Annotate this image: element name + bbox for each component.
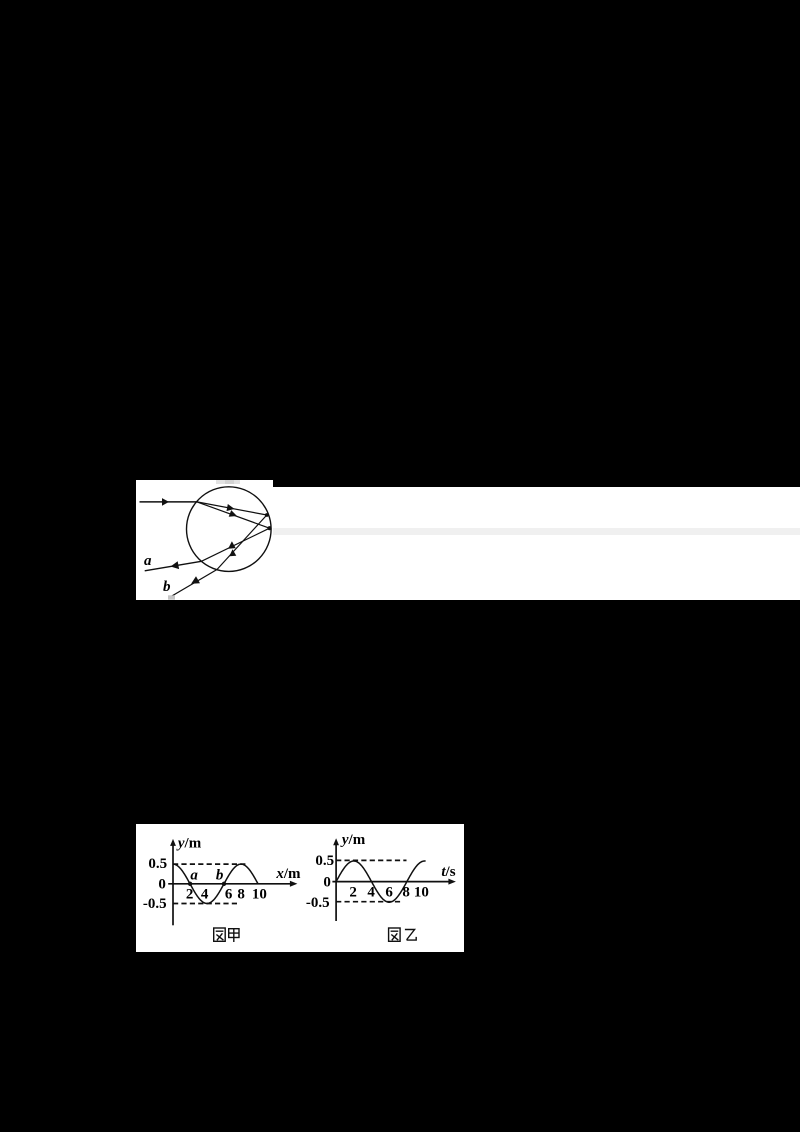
svg-text:a: a [190, 868, 198, 884]
svg-text:10: 10 [251, 887, 266, 903]
svg-text:-0.5: -0.5 [305, 895, 329, 911]
svg-text:0.5: 0.5 [148, 856, 167, 872]
svg-text:6: 6 [385, 885, 393, 901]
svg-text:10: 10 [413, 885, 428, 901]
svg-text:4: 4 [367, 885, 375, 901]
svg-text:b: b [163, 579, 171, 595]
svg-text:a: a [144, 553, 152, 569]
svg-text:t/s: t/s [441, 864, 455, 880]
svg-text:y/m: y/m [339, 832, 365, 848]
svg-text:2: 2 [185, 887, 192, 903]
svg-text:y/m: y/m [175, 836, 201, 852]
svg-text:8: 8 [402, 885, 410, 901]
svg-text:x/m: x/m [275, 866, 301, 882]
svg-text:0: 0 [323, 875, 331, 891]
svg-text:2: 2 [349, 885, 357, 901]
svg-text:8: 8 [237, 887, 245, 903]
svg-text:0.5: 0.5 [315, 853, 334, 869]
svg-text:0: 0 [158, 877, 166, 893]
svg-text:6: 6 [224, 887, 232, 903]
svg-text:-0.5: -0.5 [142, 896, 166, 912]
svg-text:4: 4 [200, 887, 208, 903]
svg-text:b: b [215, 868, 223, 884]
